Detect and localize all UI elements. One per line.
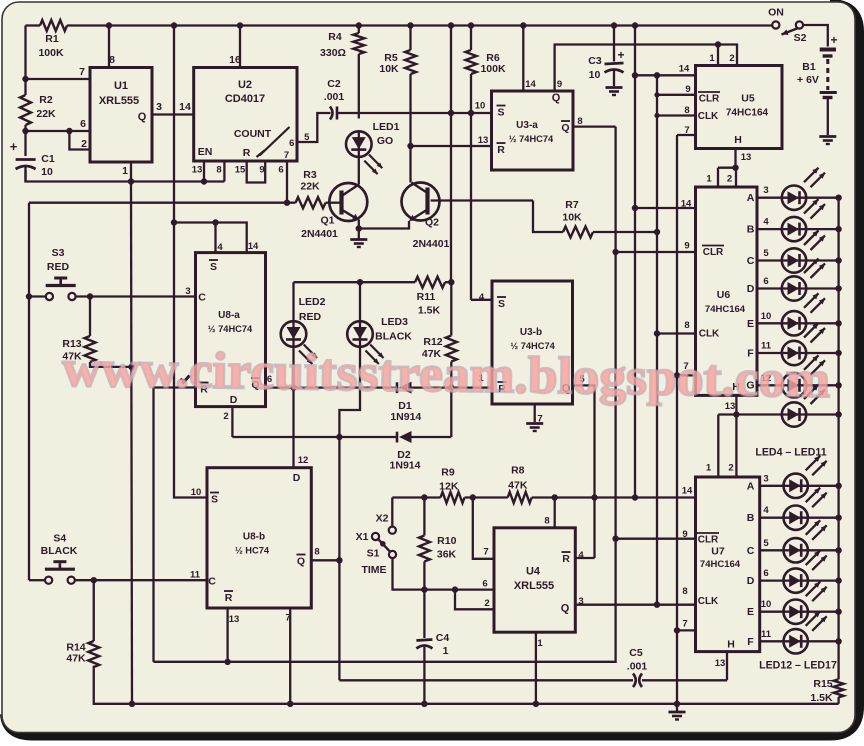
svg-text:D: D — [747, 575, 755, 587]
shift register U6 74HC164 box — [696, 187, 758, 395]
wire R6 to U3-b S pin — [471, 299, 492, 301]
svg-text:100K: 100K — [480, 63, 506, 75]
svg-text:4: 4 — [578, 550, 584, 561]
svg-text:14: 14 — [179, 101, 191, 113]
node U6 H out — [733, 411, 739, 417]
svg-text:TIME: TIME — [361, 564, 386, 576]
wire U6 output row 5 — [757, 259, 782, 261]
flip-flop U8-a box — [196, 253, 266, 407]
svg-text:GO: GO — [377, 135, 393, 147]
svg-text:10K: 10K — [562, 212, 582, 224]
ground below U3-b — [526, 422, 543, 425]
svg-text:74HC164: 74HC164 — [705, 304, 746, 315]
wire U5 pin 14 — [635, 74, 696, 76]
svg-text:8: 8 — [314, 547, 319, 558]
svg-text:3: 3 — [763, 185, 768, 196]
LED row U7 pin 10 — [784, 600, 808, 624]
svg-text:47K: 47K — [508, 480, 528, 492]
svg-text:LED1: LED1 — [373, 121, 400, 133]
ground below battery — [819, 135, 836, 138]
node R5 to U3-a R pin — [407, 143, 413, 149]
node pin6 jog — [66, 128, 72, 134]
svg-text:CLK: CLK — [699, 329, 720, 340]
svg-text:EN: EN — [198, 146, 213, 158]
wire S4 left — [29, 579, 45, 581]
svg-text:1: 1 — [709, 53, 715, 64]
resistor R14 — [93, 580, 95, 641]
node U1 pin1 bottom — [128, 178, 134, 184]
svg-text:2: 2 — [81, 138, 87, 150]
svg-text:BLACK: BLACK — [41, 545, 78, 557]
LED2 — [292, 282, 294, 321]
wire pin 4 stub — [214, 223, 216, 253]
svg-text:B: B — [747, 224, 755, 236]
svg-text:10K: 10K — [379, 63, 399, 75]
svg-text:S2: S2 — [794, 32, 807, 44]
wire U6 output row 10 — [757, 322, 782, 324]
svg-text:+: + — [830, 33, 837, 47]
wire D2 line y=437 — [232, 436, 397, 438]
svg-text:13: 13 — [741, 152, 752, 163]
wire U6 pin 13 H stub — [735, 395, 737, 414]
LED row pin 6 — [782, 276, 806, 300]
node U8-b Qbar tie — [336, 557, 342, 563]
svg-text:9: 9 — [684, 241, 689, 252]
node pin4 — [212, 219, 218, 225]
svg-text:6: 6 — [80, 118, 86, 130]
wire to cathode bus — [806, 322, 838, 324]
timer U4 XRL555 box — [494, 528, 575, 632]
svg-text:11: 11 — [761, 629, 772, 640]
transistor Q1 2N4401 — [329, 183, 367, 221]
svg-text:10: 10 — [41, 166, 53, 178]
svg-text:R11: R11 — [417, 291, 436, 303]
svg-text:8: 8 — [216, 165, 221, 176]
resistor R1 — [40, 20, 67, 31]
node CLR bus U6 pin9 — [612, 249, 618, 255]
wire R2 to C1 — [24, 125, 26, 156]
wire U8-b pin 13 stub — [226, 608, 228, 662]
svg-text:1: 1 — [706, 174, 712, 185]
node CLK chain U7 — [654, 602, 660, 608]
svg-text:47K: 47K — [66, 653, 86, 665]
node pin9 loop — [654, 72, 660, 78]
wire S3 left — [29, 295, 46, 297]
svg-text:S: S — [211, 494, 218, 506]
shift register U7 74HC164 box — [696, 477, 760, 652]
svg-text:S4: S4 — [53, 533, 66, 545]
svg-text:9: 9 — [557, 79, 562, 90]
svg-text:R: R — [225, 592, 233, 604]
svg-text:14: 14 — [682, 486, 693, 497]
wire U6 pins 1 2 feed — [718, 167, 736, 169]
svg-text:C1: C1 — [41, 153, 55, 165]
svg-text:C: C — [208, 576, 216, 588]
node C3 top rail — [611, 22, 617, 28]
node GND bus U7 pin7 — [674, 627, 680, 633]
terminal X1 — [372, 533, 379, 540]
node U2 pin7 on y=202.7 — [284, 200, 290, 206]
ground below Q1 — [358, 229, 360, 239]
wire U1 pin 2 jog — [69, 131, 90, 150]
svg-text:CLR: CLR — [698, 535, 719, 546]
flip-flop U3-b box — [492, 281, 573, 404]
counter U2 CD4017 box — [194, 68, 297, 162]
svg-text:Q: Q — [138, 111, 147, 123]
node S3 tap — [26, 293, 32, 299]
wire to cathode bus — [808, 611, 839, 613]
wire U5 pin 7 — [677, 134, 696, 136]
node GND bus U6 pin7 — [674, 372, 680, 378]
svg-text:1: 1 — [122, 165, 128, 177]
svg-text:2: 2 — [484, 598, 489, 609]
svg-text:+: + — [10, 139, 18, 154]
capacitor C3 — [613, 26, 615, 62]
svg-text:36K: 36K — [437, 549, 457, 561]
node x=450 join — [448, 110, 454, 116]
svg-text:C3: C3 — [588, 55, 602, 67]
svg-text:8: 8 — [684, 320, 689, 331]
svg-text:RED: RED — [299, 311, 322, 323]
svg-text:330Ω: 330Ω — [320, 47, 346, 59]
wire R7 dogleg — [533, 201, 563, 233]
svg-text:8: 8 — [109, 54, 115, 66]
wire U7 pins 1 2 feed — [717, 415, 719, 478]
LED row U7 pin 6 — [784, 568, 808, 592]
resistor R7 — [563, 227, 593, 238]
wire U3-b Q out — [573, 385, 595, 558]
svg-text:+ 6V: + 6V — [797, 74, 819, 86]
svg-text:E: E — [747, 606, 754, 618]
node R12 D1 — [448, 384, 454, 390]
svg-text:13: 13 — [715, 658, 726, 669]
node x657 y94.8 — [654, 92, 659, 97]
svg-text:6: 6 — [763, 276, 768, 287]
LED row pin 5 — [782, 248, 806, 272]
svg-text:5: 5 — [763, 538, 769, 549]
svg-text:3: 3 — [763, 473, 768, 484]
wire U4 Q to U7 CLK — [575, 604, 695, 606]
wire U6 pin 7 — [677, 374, 696, 376]
resistor R6 — [466, 50, 477, 74]
node R6 join — [468, 110, 474, 116]
wire U3-a Qbar pin 8 — [573, 125, 616, 127]
node pin14 top rail — [520, 22, 526, 28]
wire R chain x=153.5 — [152, 388, 154, 662]
svg-text:74HC164: 74HC164 — [726, 108, 769, 119]
svg-text:Q: Q — [552, 92, 561, 104]
wire U6 output row 4 — [757, 228, 782, 230]
wire U8-a pins 4 14 jumper — [174, 223, 247, 253]
svg-text:A: A — [747, 192, 755, 204]
node cathode bus — [835, 609, 841, 615]
wire U5 pin 9 loop — [657, 94, 696, 96]
svg-text:BLACK: BLACK — [375, 331, 412, 343]
svg-text:7: 7 — [483, 547, 488, 558]
wire U7 output row 10 — [760, 611, 784, 613]
node cathode bus — [835, 350, 841, 356]
wire U6 pin 14 — [635, 207, 696, 209]
svg-text:R3: R3 — [303, 169, 317, 181]
node x174 top rail — [171, 22, 177, 28]
svg-text:E: E — [747, 318, 754, 330]
wire U2 pin 7 stub — [286, 161, 288, 203]
svg-text:7: 7 — [79, 66, 85, 78]
wire U8-a Q to D1 line y=387.6 — [266, 386, 398, 388]
svg-text:R: R — [243, 147, 251, 159]
U2 internal count switch arm — [260, 127, 290, 156]
svg-text:9: 9 — [259, 165, 264, 176]
svg-text:4: 4 — [479, 292, 485, 303]
svg-text:½ 74HC74: ½ 74HC74 — [509, 134, 554, 144]
wire U5 pin 8 CLK — [657, 114, 696, 116]
wire U1 pin 8 stub — [108, 26, 110, 68]
wire left rail x=29 to switches — [28, 203, 30, 581]
resistor R12 — [450, 282, 452, 335]
node cathode bus — [835, 285, 841, 291]
battery B1 — [820, 48, 836, 52]
svg-text:13: 13 — [478, 135, 489, 146]
svg-text:16: 16 — [229, 54, 241, 66]
wire U4 pin2 jog — [455, 590, 494, 610]
LED row pin 11 — [782, 341, 806, 365]
wire C2 to U3-a S pin — [337, 112, 492, 114]
svg-text:10: 10 — [761, 311, 772, 322]
svg-text:3: 3 — [578, 596, 583, 607]
svg-text:10: 10 — [475, 101, 486, 112]
wire LED3 dogleg — [339, 347, 360, 437]
wire U2 pin 16 stub — [239, 26, 241, 68]
flip-flop U3-a box — [492, 91, 574, 170]
LED row U7 pin 3 — [784, 474, 808, 498]
svg-text:R8: R8 — [511, 465, 525, 477]
LED row U7 pin 5 — [784, 538, 808, 562]
wire U5 pin 13 stub — [734, 149, 736, 168]
svg-text:RED: RED — [47, 261, 70, 273]
node bus top rail — [632, 22, 638, 28]
node U1 pin7 / R2 top — [22, 76, 28, 82]
wire U7 pin 9 — [616, 538, 696, 540]
resistor R15 — [834, 679, 844, 697]
node cathode bus — [835, 382, 841, 388]
node R10 top — [421, 494, 427, 500]
svg-text:11: 11 — [190, 570, 201, 581]
node U8-a S tap — [171, 219, 177, 225]
svg-text:U4: U4 — [526, 566, 541, 578]
svg-text:7: 7 — [284, 150, 289, 161]
svg-text:R2: R2 — [39, 94, 53, 106]
wire U4 pin8 stub — [554, 498, 556, 528]
svg-text:CD4017: CD4017 — [225, 93, 265, 105]
svg-text:1: 1 — [706, 463, 712, 474]
svg-text:7: 7 — [285, 613, 290, 624]
svg-text:6: 6 — [289, 138, 294, 149]
svg-text:XRL555: XRL555 — [99, 95, 139, 107]
wire C1 to bottom — [24, 166, 26, 182]
wire to cathode bus — [806, 259, 838, 261]
svg-text:R9: R9 — [441, 467, 455, 479]
wire GND bus x=677 — [676, 135, 678, 704]
wire CLK bus x=657 — [656, 75, 658, 604]
wire U1 pin 6 — [26, 130, 91, 132]
svg-text:U2: U2 — [238, 79, 252, 91]
node pin8 top rail — [106, 22, 112, 28]
svg-text:U1: U1 — [114, 80, 128, 92]
wire to cathode bus — [806, 384, 838, 386]
wire top power rail y=25.5 — [67, 24, 772, 26]
wire U4 pin7 link — [473, 498, 494, 559]
svg-text:1: 1 — [443, 645, 449, 657]
wire U6 output row 6 — [757, 287, 782, 289]
wire U7 output row 5 — [760, 549, 784, 551]
svg-text:10: 10 — [191, 487, 202, 498]
svg-text:½ 74HC74: ½ 74HC74 — [208, 324, 253, 334]
wire to cathode bus — [808, 517, 839, 519]
svg-text:6: 6 — [482, 579, 487, 590]
svg-text:Q1: Q1 — [320, 215, 334, 227]
LED row pin 10 — [782, 311, 806, 335]
wire to cathode bus — [808, 579, 839, 581]
node x=451 top rail — [448, 22, 454, 28]
wire U6 output row 12 — [757, 384, 782, 386]
svg-text:LED3: LED3 — [381, 316, 408, 328]
node C4 bottom — [421, 701, 427, 707]
svg-text:U5: U5 — [741, 93, 755, 105]
node U4 pin7 tie — [470, 494, 476, 500]
node R4 top rail — [356, 22, 362, 28]
pin 1 tick mark — [183, 376, 190, 384]
svg-text:R: R — [497, 144, 505, 156]
wire X2 stub — [391, 498, 393, 527]
svg-text:Q: Q — [297, 556, 305, 568]
node U7 pin14 — [632, 494, 638, 500]
svg-text:C4: C4 — [436, 632, 450, 644]
svg-text:2: 2 — [223, 411, 228, 422]
svg-text:C: C — [747, 255, 755, 267]
ground symbol bottom — [676, 704, 678, 711]
svg-text:X2: X2 — [376, 513, 389, 525]
svg-text:10: 10 — [589, 69, 601, 81]
wire to cathode bus — [806, 352, 838, 354]
svg-text:C2: C2 — [327, 78, 341, 90]
switch S1 arm — [378, 539, 389, 551]
resistor R5 — [405, 50, 416, 74]
node cathode bus — [835, 226, 841, 232]
wire S4 to U8-b pin 11 — [75, 579, 207, 581]
wire U3-a pin 14 stub — [522, 26, 524, 92]
wire U7 output row 11 — [760, 640, 784, 642]
svg-text:4: 4 — [217, 242, 223, 253]
wire U8-b pin 7 stub — [289, 608, 291, 704]
wire LED1 to Q1 collector — [358, 157, 360, 185]
svg-text:R4: R4 — [328, 31, 342, 43]
svg-text:15: 15 — [235, 165, 246, 176]
wire vertical x=451 to R11 R12 — [450, 26, 452, 283]
node bus x131 bottom — [129, 701, 135, 707]
svg-text:1N914: 1N914 — [390, 460, 421, 472]
svg-text:U3-b: U3-b — [520, 327, 542, 338]
svg-text:X1: X1 — [356, 531, 369, 543]
svg-text:LED12 – LED17: LED12 – LED17 — [759, 660, 837, 672]
wire U8-a pin 2 stub — [231, 407, 233, 437]
svg-text:14: 14 — [679, 64, 690, 75]
svg-text:LED2: LED2 — [299, 296, 326, 308]
wire emitter tie — [359, 221, 409, 229]
wire to cathode bus — [806, 287, 838, 289]
flip-flop U8-b box — [207, 468, 311, 608]
svg-text:8: 8 — [682, 586, 687, 597]
node CLK chain U6 — [654, 330, 660, 336]
svg-text:D: D — [293, 472, 301, 484]
svg-text:13: 13 — [229, 614, 240, 625]
svg-text:CLK: CLK — [698, 111, 719, 122]
switch S3 pushbutton — [46, 293, 53, 300]
svg-text:22K: 22K — [36, 108, 56, 120]
wire VCC bus x=635 — [634, 26, 636, 498]
wire U1 pin 7 — [26, 78, 91, 80]
svg-text:U8-b: U8-b — [243, 532, 265, 543]
node cathode bus — [835, 577, 841, 583]
node U6 pin14 — [632, 205, 638, 211]
svg-text:4: 4 — [763, 505, 769, 516]
wire to cathode bus — [806, 197, 838, 199]
node cathode bus H — [835, 411, 841, 417]
wire to cathode bus — [808, 485, 839, 487]
svg-text:100K: 100K — [38, 47, 64, 59]
svg-text:2N4401: 2N4401 — [301, 228, 338, 240]
node pin16 top rail — [237, 22, 243, 28]
svg-text:3: 3 — [156, 101, 162, 113]
capacitor C1 — [16, 158, 36, 161]
wire C5 line y=680.3 — [339, 679, 633, 681]
svg-text:1.5K: 1.5K — [810, 692, 833, 704]
svg-text:D: D — [747, 283, 755, 295]
wire Q2 base — [431, 199, 533, 201]
node R6 top rail — [468, 22, 474, 28]
svg-text:U7: U7 — [711, 546, 725, 558]
resistor R4 — [353, 33, 364, 54]
svg-text:F: F — [747, 636, 754, 648]
wire U4 pin 1 stub — [535, 632, 537, 704]
wire S1 down — [393, 558, 495, 590]
terminal X2 — [389, 527, 396, 534]
svg-text:CLR: CLR — [699, 94, 720, 105]
ground below C3 — [606, 86, 623, 89]
node Q1 emitter — [356, 225, 362, 231]
svg-text:S: S — [210, 261, 217, 273]
LED row pin 3 — [782, 186, 806, 210]
svg-text:+: + — [617, 48, 624, 62]
svg-text:8: 8 — [577, 116, 582, 127]
wire Qbar chain x=339.4 — [338, 437, 340, 680]
resistor R11 — [415, 277, 445, 288]
svg-text:10: 10 — [761, 599, 772, 610]
node ground tap — [674, 701, 680, 707]
wire U7 pin 13 stub — [726, 652, 728, 681]
node R13 top — [87, 293, 93, 299]
diode D2 1N914 — [396, 432, 399, 443]
wire U3-b pin 7 stub — [534, 404, 536, 422]
node U4 pin8 tie — [552, 494, 558, 500]
svg-text:S1: S1 — [367, 548, 380, 560]
resistor R8 — [508, 492, 532, 503]
svg-text:R15: R15 — [813, 678, 832, 690]
svg-text:R1: R1 — [45, 33, 59, 45]
svg-text:1: 1 — [537, 638, 543, 649]
svg-text:13: 13 — [192, 165, 203, 176]
svg-text:8: 8 — [544, 516, 549, 527]
capacitor C4 — [423, 590, 425, 638]
